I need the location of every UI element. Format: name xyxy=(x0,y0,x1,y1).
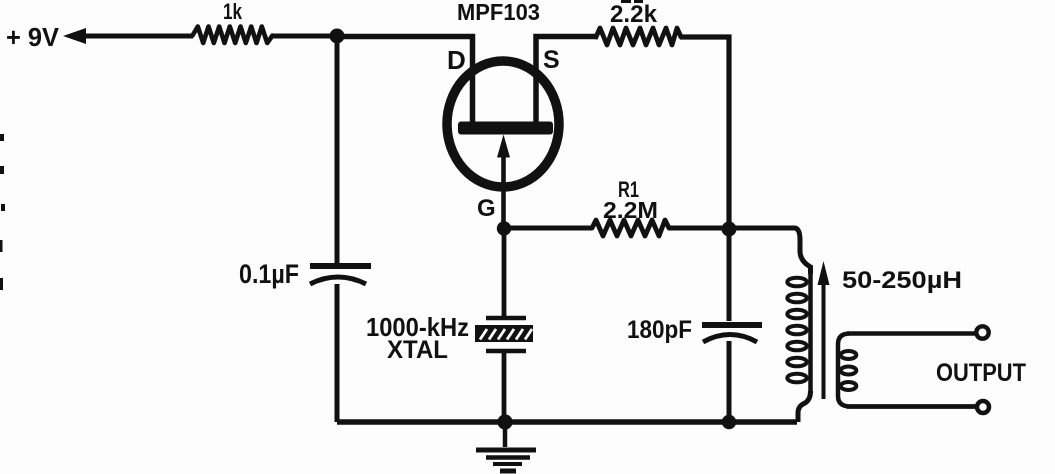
transformer T1 secondary winding loops xyxy=(841,351,857,390)
node dot right rail / R1 xyxy=(722,222,737,237)
resistor 2.2k xyxy=(596,28,681,45)
wire 2.2k to right rail corner xyxy=(680,37,729,230)
page edge text fragments xyxy=(0,134,5,290)
bottom ground bus wire xyxy=(337,419,797,424)
svg-text:50-250µH: 50-250µH xyxy=(842,267,962,294)
wire arrow to R 1k xyxy=(83,34,193,39)
svg-text:OUTPUT: OUTPUT xyxy=(936,359,1026,387)
transformer T1 primary spine xyxy=(808,272,813,393)
capacitor C2 curved plate xyxy=(703,335,757,343)
wire R1 to right rail node xyxy=(668,226,729,231)
crystal top plate xyxy=(486,316,526,321)
gate arrow xyxy=(497,135,510,158)
output bottom terminal xyxy=(977,401,989,413)
resistor 1k xyxy=(193,27,273,44)
svg-text:180pF: 180pF xyxy=(627,316,692,344)
crystal Y1 top wire xyxy=(502,228,507,316)
svg-text:0.1µF: 0.1µF xyxy=(239,259,299,289)
svg-text:1k: 1k xyxy=(223,0,243,24)
svg-text:2.2M: 2.2M xyxy=(603,197,658,223)
crystal bottom wire xyxy=(502,353,507,422)
transformer T1 primary exit wire xyxy=(798,391,811,422)
capacitor C2 bottom wire xyxy=(727,341,732,422)
resistor R1 2.2M xyxy=(592,220,669,236)
wire gate node to R1 xyxy=(504,226,592,231)
transformer T1 secondary spine xyxy=(838,334,849,407)
svg-text:D: D xyxy=(447,45,466,75)
capacitor C1 bottom wire xyxy=(335,284,340,422)
wire node A to drain (top corner) xyxy=(337,37,473,124)
output top wire xyxy=(847,331,975,335)
capacitor C1 top plate xyxy=(310,263,371,269)
transistor gate bar xyxy=(458,122,553,135)
wire R 1k to node A xyxy=(271,34,338,39)
node dot gate / R1 xyxy=(497,221,511,235)
capacitor C2 180pF top wire xyxy=(727,228,732,321)
supply arrowhead xyxy=(63,28,86,44)
ground node dot xyxy=(497,414,512,429)
node dot bottom right rail xyxy=(722,415,736,429)
label R2 remnant (cut off at top) xyxy=(621,0,631,3)
transformer T1 primary winding loops xyxy=(787,278,806,383)
transistor Q1 MPF103 body circle xyxy=(447,61,559,187)
wire right rail node to transformer primary xyxy=(729,228,811,274)
crystal bottom plate xyxy=(486,349,526,354)
gate lead wire xyxy=(501,155,506,229)
svg-text:MPF103: MPF103 xyxy=(457,0,540,25)
capacitor C1 0.1uF top wire xyxy=(335,40,340,263)
node A junction dot xyxy=(330,29,345,44)
capacitor C2 top plate xyxy=(702,322,762,328)
svg-text:G: G xyxy=(477,195,496,222)
output top terminal xyxy=(976,326,988,338)
svg-text:S: S xyxy=(543,46,560,74)
ground symbol xyxy=(476,422,536,471)
source lead wire xyxy=(536,37,598,124)
svg-text:2.2k: 2.2k xyxy=(610,1,658,28)
output bottom wire xyxy=(847,404,975,409)
crystal hatched body xyxy=(475,325,533,342)
capacitor C1 curved plate xyxy=(310,277,366,284)
transformer adjustable core arrow xyxy=(822,284,826,399)
svg-text:XTAL: XTAL xyxy=(387,336,448,364)
svg-text:+ 9V: + 9V xyxy=(6,22,60,52)
